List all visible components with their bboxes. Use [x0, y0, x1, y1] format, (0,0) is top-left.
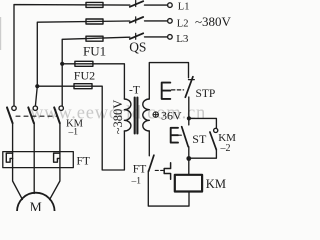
thermal relay FT heater element phase 3	[54, 153, 60, 162]
thermal relay FT heater element phase 1	[6, 153, 12, 162]
svg-text:L2: L2	[177, 18, 189, 29]
wire phase 1 to motor	[13, 123, 23, 199]
transformer T core bar right	[136, 98, 138, 134]
svg-text:L3: L3	[176, 33, 189, 45]
fuse FU1 pole 3	[86, 36, 103, 41]
transformer T secondary winding	[143, 99, 150, 131]
wire ST top stub	[188, 118, 190, 125]
svg-text:FT: FT	[133, 164, 146, 176]
wire KM-2 bottom to junction	[189, 150, 216, 159]
terminal L1 circle	[168, 3, 173, 8]
thermal contact FT-1 blade	[149, 155, 154, 171]
contactor KM-1 main contact pole 1 circle	[12, 106, 16, 110]
start button ST blade	[182, 127, 189, 147]
node branch junction top	[187, 116, 191, 120]
wire secondary top to control rail and STP	[149, 63, 188, 99]
wire phase 3 to motor	[50, 123, 60, 200]
svg-text:-T: -T	[129, 85, 140, 97]
terminal L3 circle	[168, 35, 173, 40]
fuse FU1 pole 2	[86, 19, 103, 24]
fuse FU2 lower	[74, 84, 92, 89]
wire L3 phase row + drop	[62, 37, 130, 106]
scan edge artifact left	[0, 17, 2, 50]
contactor KM-1 main contact pole 3 circle	[59, 106, 63, 110]
coil KM rectangle	[175, 175, 202, 192]
start button ST actuator E	[171, 128, 178, 143]
wire phase 2 to motor	[33, 123, 35, 193]
svg-text:FU2: FU2	[74, 68, 95, 82]
wire L1 right to terminal	[145, 4, 168, 6]
stop button STP dashed link	[172, 89, 184, 91]
thermal relay FT box	[3, 152, 74, 168]
wire L2 right to terminal	[145, 20, 168, 22]
motor M circle	[17, 193, 55, 231]
wire branch to KM-2	[189, 118, 217, 128]
svg-text:ST: ST	[192, 132, 207, 146]
svg-text:–1: –1	[68, 127, 79, 137]
svg-text:QS: QS	[129, 40, 146, 55]
contactor KM-1 main contact pole 2 circle	[33, 106, 37, 110]
thermal contact FT-1 dashed link	[155, 169, 163, 171]
secondary terminal symbol circled cross	[153, 112, 158, 117]
wire ST bottom to coil	[188, 147, 190, 175]
wire coil bottom rail	[148, 171, 189, 206]
wire FU2 upper branch to transformer primary top	[62, 64, 124, 99]
fuse FU1 pole 1	[86, 2, 103, 7]
node junction FU2 lower on L2 drop	[35, 84, 39, 88]
switch QS linkage dashed	[135, 1, 137, 41]
terminal L2 circle	[168, 19, 173, 24]
contact KM-2 blade	[210, 132, 216, 150]
switch QS blade pole 1	[130, 1, 143, 7]
svg-text:STP: STP	[196, 88, 216, 100]
svg-text:FU1: FU1	[83, 44, 106, 59]
wire STP to branch node	[188, 97, 190, 118]
wire FU2 lower branch to transformer primary bottom	[37, 86, 124, 170]
stop button STP blade	[185, 77, 193, 98]
svg-text:KM: KM	[206, 177, 226, 191]
svg-text:36V: 36V	[161, 109, 182, 123]
transformer T core bar left	[134, 98, 136, 134]
contactor KM-1 linkage dashed	[16, 115, 57, 117]
wire L3 right to terminal	[145, 36, 168, 38]
contactor KM-1 main contact pole 3 blade	[54, 107, 60, 123]
start button ST dashed link	[179, 134, 181, 136]
svg-text:FT: FT	[77, 156, 90, 168]
wire L1 phase row + left drop	[14, 5, 130, 106]
svg-text:M: M	[30, 199, 42, 211]
switch QS blade pole 3	[130, 33, 143, 39]
fuse FU2 upper	[75, 61, 93, 66]
thermal contact FT-1 release hook	[164, 163, 170, 179]
svg-text:~380V: ~380V	[195, 14, 232, 29]
svg-text:–1: –1	[131, 177, 142, 187]
svg-text:–2: –2	[220, 143, 231, 154]
contactor KM-1 main contact pole 2 blade	[28, 107, 34, 123]
stop button STP actuator E	[162, 83, 171, 99]
wire L2 phase row + drop	[35, 21, 129, 106]
wire secondary bottom to FT-1	[148, 131, 150, 156]
transformer T primary winding	[124, 99, 131, 131]
contact KM-2 circle	[214, 128, 218, 132]
node branch junction bottom	[186, 156, 191, 161]
stop button STP fixed contact tick	[189, 79, 195, 81]
node junction FU2 upper on L3 drop	[60, 62, 64, 66]
switch QS blade pole 2	[130, 17, 143, 23]
svg-text:~380V: ~380V	[111, 100, 125, 135]
contactor KM-1 main contact pole 1 blade	[7, 107, 13, 123]
svg-text:L1: L1	[178, 1, 190, 12]
